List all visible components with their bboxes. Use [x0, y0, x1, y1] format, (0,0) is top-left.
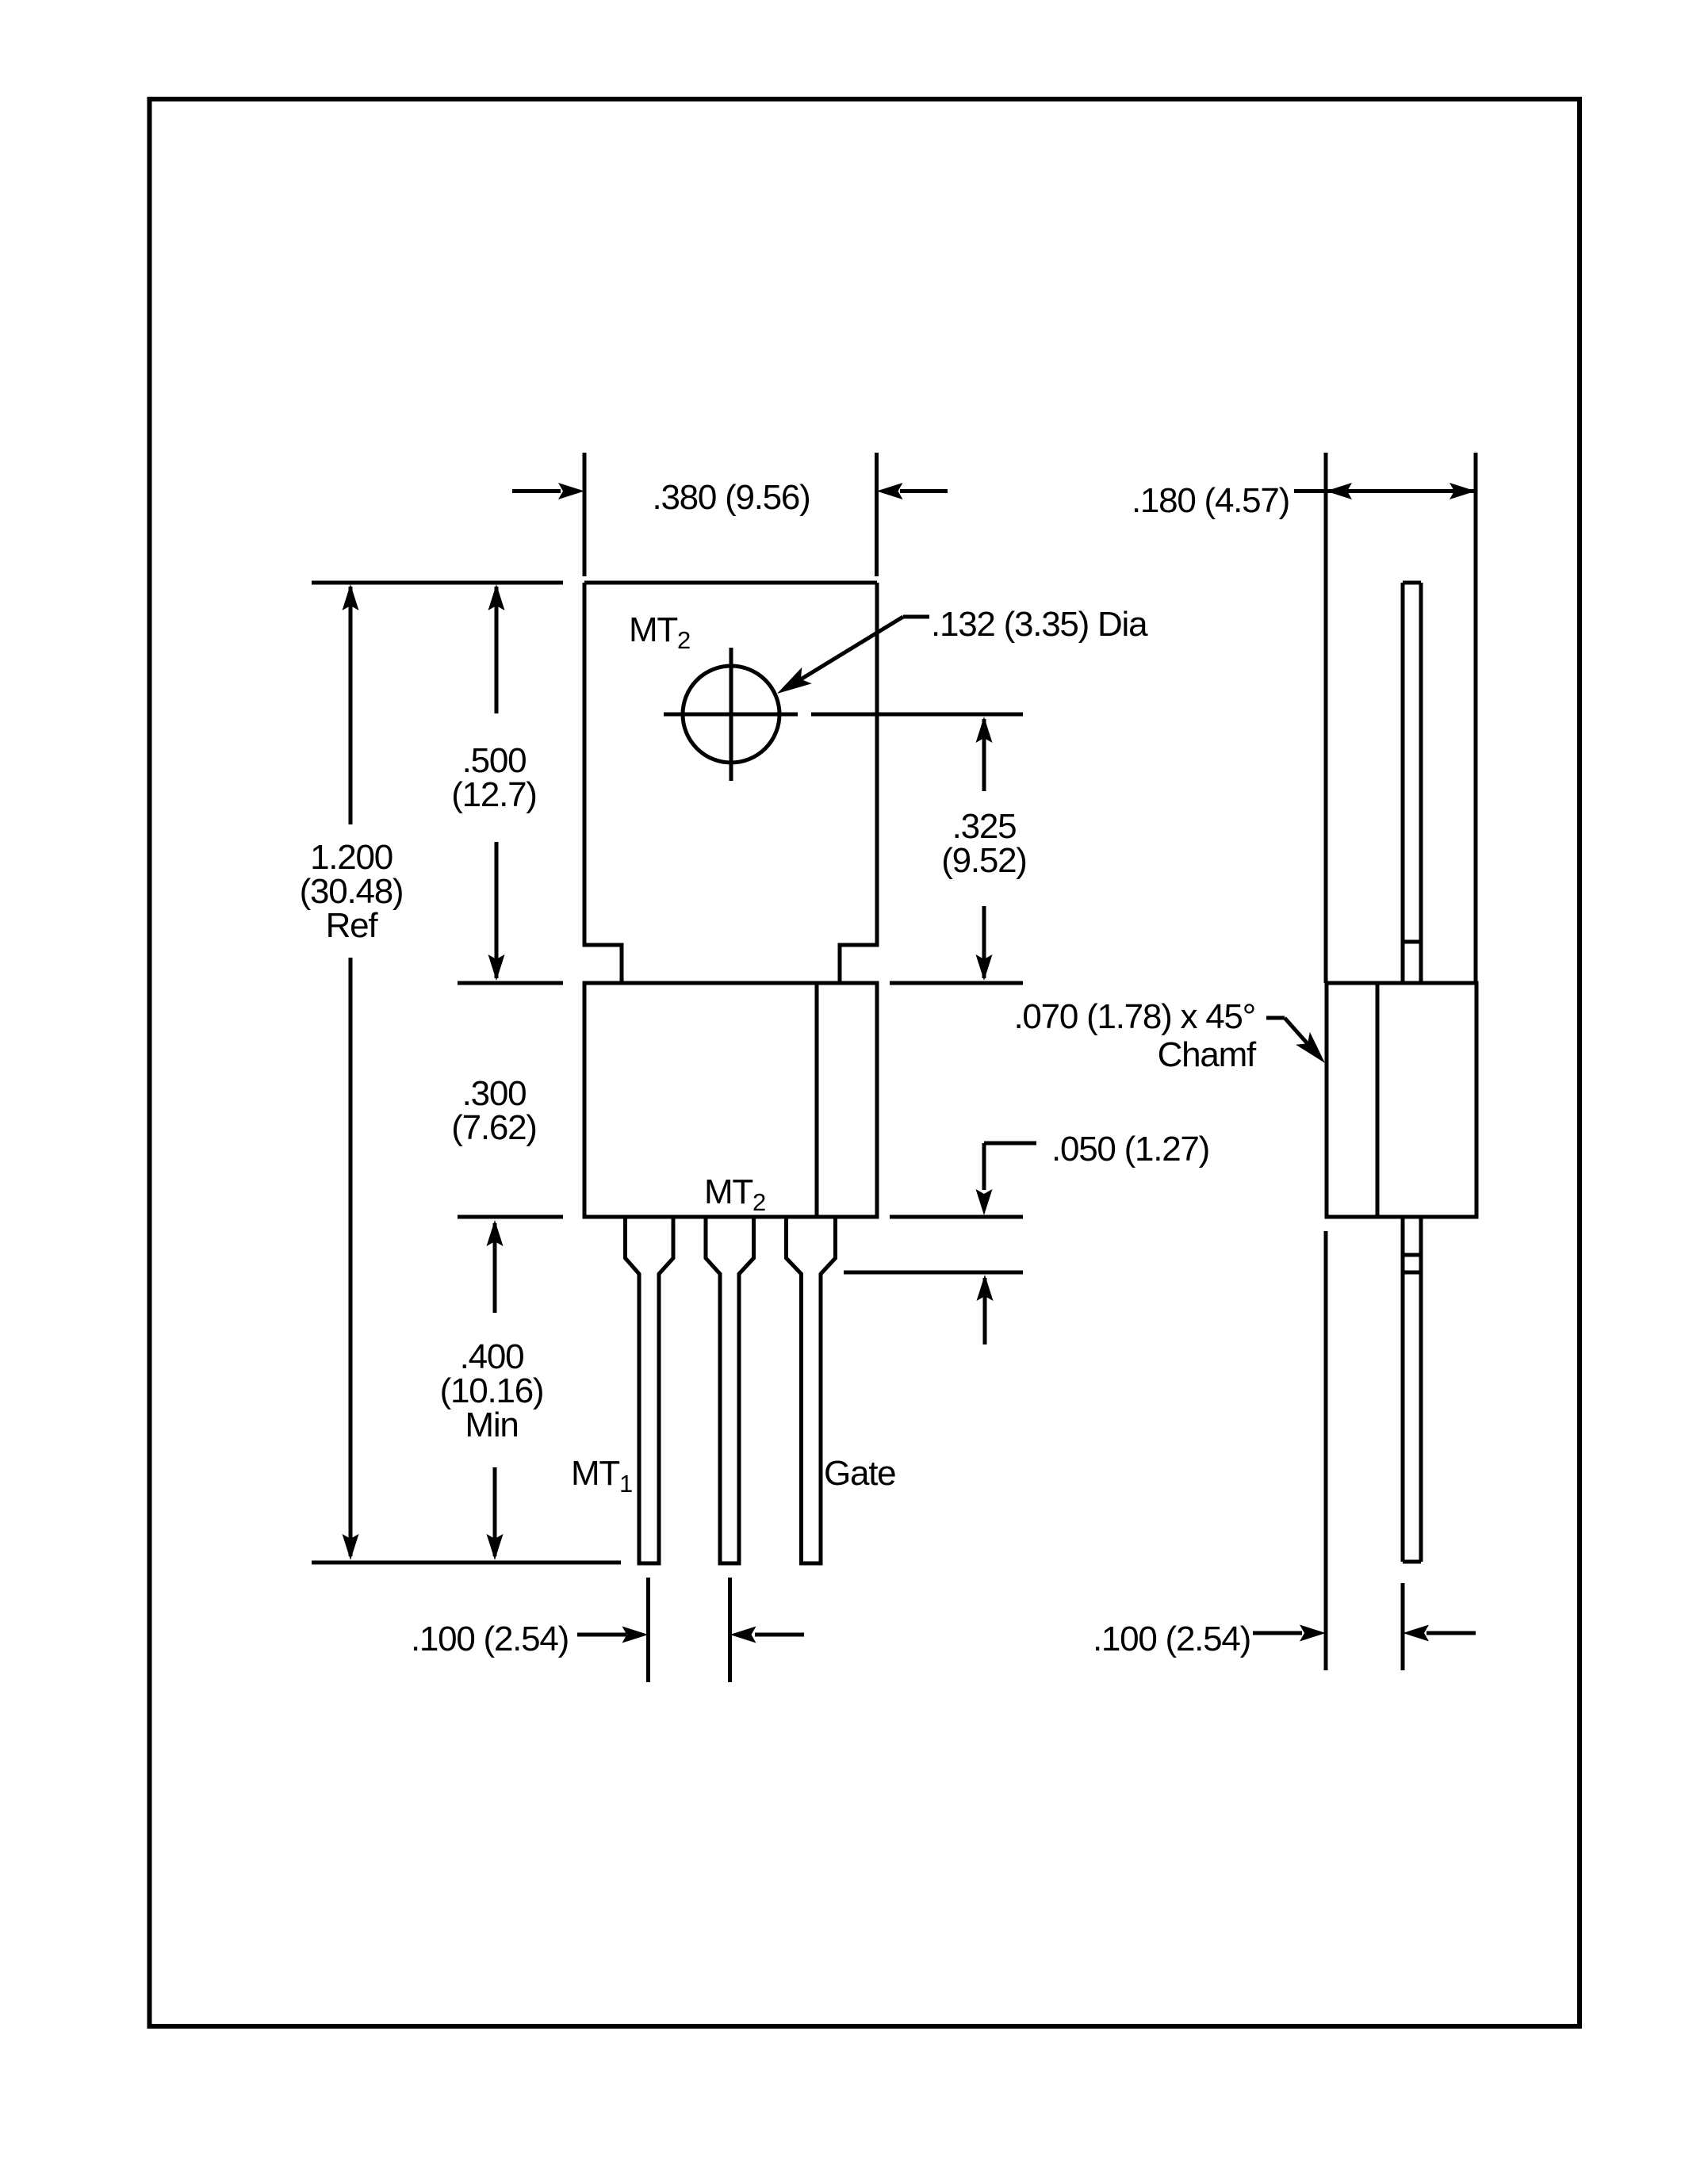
- svg-text:.132 (3.35) Dia: .132 (3.35) Dia: [931, 605, 1148, 644]
- svg-text:(30.48): (30.48): [300, 872, 404, 911]
- svg-text:.380 (9.56): .380 (9.56): [652, 478, 810, 517]
- svg-text:(10.16): (10.16): [440, 1371, 544, 1410]
- svg-text:Gate: Gate: [824, 1454, 895, 1493]
- svg-text:.400: .400: [460, 1337, 524, 1376]
- svg-text:.500: .500: [462, 741, 527, 780]
- svg-text:.325: .325: [952, 807, 1017, 846]
- svg-text:.300: .300: [462, 1074, 527, 1113]
- svg-text:.070 (1.78) x 45°: .070 (1.78) x 45°: [1013, 997, 1255, 1036]
- svg-text:1.200: 1.200: [310, 838, 393, 877]
- svg-text:(7.62): (7.62): [451, 1108, 536, 1147]
- svg-text:Min: Min: [465, 1406, 518, 1444]
- svg-text:(12.7): (12.7): [451, 775, 536, 814]
- svg-text:(9.52): (9.52): [941, 841, 1026, 880]
- svg-text:.050 (1.27): .050 (1.27): [1051, 1130, 1209, 1168]
- svg-text:.100 (2.54): .100 (2.54): [1093, 1620, 1250, 1658]
- svg-text:Ref: Ref: [326, 906, 379, 945]
- svg-text:.100 (2.54): .100 (2.54): [411, 1620, 569, 1658]
- svg-text:Chamf: Chamf: [1158, 1035, 1257, 1074]
- svg-text:.180 (4.57): .180 (4.57): [1132, 481, 1289, 520]
